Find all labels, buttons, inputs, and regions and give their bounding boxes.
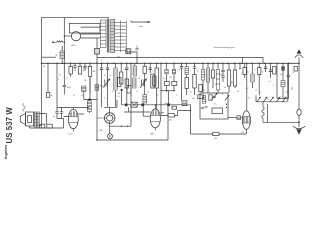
row resistor Rb3b <box>127 86 131 94</box>
svg-text:1: 1 <box>210 90 211 92</box>
svg-text:4: 4 <box>101 60 102 62</box>
svg-text:50: 50 <box>267 99 269 101</box>
svg-text:10: 10 <box>138 78 140 80</box>
svg-text:0,1: 0,1 <box>160 90 162 92</box>
column capacitor Ce2 <box>221 63 224 82</box>
wire coil leads <box>61 46 63 63</box>
svg-text:0,2: 0,2 <box>203 90 205 92</box>
wire earth stem <box>298 63 300 109</box>
wire power box top edge <box>42 16 110 18</box>
resistor Rd2 <box>164 82 169 86</box>
coil Ld <box>186 63 188 66</box>
svg-text:5000: 5000 <box>67 87 71 89</box>
capacitor Ce <box>180 63 183 78</box>
capacitor electrolytic + <box>95 49 100 55</box>
svg-text:6: 6 <box>247 92 248 94</box>
column coil Re2 <box>207 63 209 68</box>
svg-text:Netz: Netz <box>139 25 143 28</box>
wire speaker to chassis <box>39 114 46 126</box>
svg-text:50: 50 <box>110 75 112 77</box>
svg-text:1W: 1W <box>163 78 166 80</box>
svg-text:4: 4 <box>58 79 59 81</box>
junction dots on bus <box>41 63 300 141</box>
resistor on bottom line <box>39 124 45 128</box>
capacitor C1 <box>55 108 58 119</box>
fuse Si <box>52 41 63 43</box>
svg-text:5: 5 <box>241 73 242 75</box>
tube V3 UBF <box>150 109 160 135</box>
IF can L2 <box>87 101 91 112</box>
svg-text:90: 90 <box>43 66 45 68</box>
svg-text:UBF: UBF <box>150 133 154 135</box>
variable capacitor CV2 <box>140 79 147 88</box>
wire fuse to bus <box>63 42 65 63</box>
svg-text:2M: 2M <box>93 71 96 73</box>
resistor Rc1 <box>118 78 121 87</box>
jack X box <box>131 102 137 107</box>
resistor St <box>47 63 49 92</box>
svg-text:Betriebsspannungen gem.: Betriebsspannungen gem. <box>214 46 235 49</box>
wire rectifier to transformer <box>81 34 101 38</box>
resistor R1 <box>70 63 72 77</box>
tube V1 UCH <box>68 109 78 135</box>
value labels <box>59 60 288 106</box>
capacitor C2 <box>60 108 63 119</box>
antenna <box>295 55 303 64</box>
row capacitor Cb <box>106 63 109 73</box>
resistor Rg1 <box>282 63 284 66</box>
svg-text:10: 10 <box>256 90 258 92</box>
IF can L3 <box>144 73 146 95</box>
variable capacitor CV1 <box>103 79 110 88</box>
capacitor Cg2 <box>287 63 290 98</box>
resistor Rd7 <box>199 85 202 92</box>
rectifier tube AZ11 <box>71 32 80 41</box>
resistor in box <box>209 95 212 100</box>
speaker LS <box>20 114 25 125</box>
wire bottom left line <box>30 126 64 128</box>
resistor Rd1 <box>166 63 168 69</box>
svg-text:2: 2 <box>152 71 153 73</box>
wire tube V2 leads <box>104 100 117 134</box>
svg-text:50: 50 <box>112 91 114 93</box>
rectifier row <box>256 63 288 102</box>
earth arrow <box>293 126 305 129</box>
column resistor Re1 <box>202 63 204 69</box>
coil Lc1 <box>133 78 136 88</box>
voltage selector taps <box>115 21 127 53</box>
svg-text:0,1: 0,1 <box>53 116 56 118</box>
svg-text:8: 8 <box>137 91 138 93</box>
svg-text:0,1: 0,1 <box>269 81 271 83</box>
tube V4 UCL <box>241 111 250 134</box>
resistor Rg2 <box>281 81 285 87</box>
wire long vertical x97 <box>96 63 98 140</box>
svg-text:0,5: 0,5 <box>280 74 282 76</box>
wire x277 <box>276 63 278 98</box>
capacitor C2c <box>83 63 86 70</box>
svg-text:10: 10 <box>292 72 294 74</box>
svg-text:1M: 1M <box>84 80 87 82</box>
svg-text:0,2: 0,2 <box>66 78 68 80</box>
svg-text:6M7: 6M7 <box>100 130 104 132</box>
svg-text:CL4: CL4 <box>241 132 244 134</box>
node A <box>141 104 144 107</box>
svg-text:50: 50 <box>215 84 217 86</box>
svg-text:2: 2 <box>261 92 262 94</box>
svg-text:30: 30 <box>222 94 224 96</box>
resistor R2 <box>79 63 81 66</box>
svg-text:US 537 W: US 537 W <box>5 107 14 144</box>
trimmer arrow 2 <box>225 95 230 100</box>
diode D2 <box>263 97 267 102</box>
resistor 500b <box>213 132 219 135</box>
wire IF can leads <box>84 76 97 113</box>
coil in box <box>202 96 205 104</box>
resistor Rd5 <box>193 63 196 74</box>
capacitor Cg <box>269 63 272 78</box>
resistor Rc2 <box>125 79 128 88</box>
svg-text:300: 300 <box>292 87 294 90</box>
wire mains drop <box>63 17 65 42</box>
svg-text:400: 400 <box>169 120 172 122</box>
capacitor Cg0 <box>264 63 267 72</box>
row capacitor Cd <box>149 63 152 73</box>
wire y90 link <box>161 90 174 92</box>
wire tube V3 leads <box>143 105 164 131</box>
diode D4 <box>276 97 280 102</box>
resistor Rc3 <box>153 76 156 86</box>
svg-text:200: 200 <box>192 98 195 100</box>
wire tube V4 anode <box>246 63 248 111</box>
svg-text:25: 25 <box>73 95 75 97</box>
svg-text:4: 4 <box>205 75 206 77</box>
resistor R3 <box>89 63 91 93</box>
shield box rectifier <box>69 23 100 33</box>
output transformer Tr2 <box>34 112 39 127</box>
heater bracket <box>97 57 263 63</box>
svg-text:4: 4 <box>273 85 274 87</box>
wire grid top line tube1 <box>57 63 89 107</box>
speaker field coil mark <box>23 104 26 112</box>
svg-text:500: 500 <box>214 138 217 140</box>
svg-text:6: 6 <box>104 98 105 100</box>
row coil dark <box>115 63 117 68</box>
capacitor C3 <box>63 63 66 94</box>
svg-text:0,2: 0,2 <box>286 92 288 94</box>
resistor Rd6 <box>198 95 204 99</box>
resistor Rf1 <box>244 63 246 67</box>
lamp dial <box>108 134 113 139</box>
wire power box bottom hint <box>42 56 57 58</box>
svg-text:30: 30 <box>104 75 106 77</box>
svg-text:0,5: 0,5 <box>156 95 158 97</box>
row resistor Rb2 <box>120 63 122 72</box>
resistor in box 2 <box>212 108 223 114</box>
wire rectifier anode <box>64 35 71 37</box>
svg-text:+: + <box>101 51 102 53</box>
transformer core <box>107 19 108 53</box>
capacitor in box <box>205 96 217 108</box>
resistor Rh1 <box>172 106 177 109</box>
svg-text:50: 50 <box>59 75 61 77</box>
resistor Ld2 <box>185 78 188 89</box>
svg-text:6: 6 <box>255 70 256 72</box>
column resistor Re4 <box>217 63 219 69</box>
resistor Rd3 <box>173 63 175 69</box>
coil wavy <box>262 102 264 123</box>
svg-text:0,1: 0,1 <box>81 95 83 97</box>
capacitor in box 3 <box>201 107 204 108</box>
svg-text:0,1: 0,1 <box>224 87 226 89</box>
svg-text:2: 2 <box>132 95 133 97</box>
wire grid line y104.8 <box>122 63 191 105</box>
coil Sp <box>60 51 65 59</box>
row resistor Rb3 <box>134 63 136 66</box>
wire chassis left vertical <box>41 17 43 128</box>
svg-text:400: 400 <box>165 103 168 105</box>
transformer secondary <box>110 20 115 53</box>
wire bottom line right <box>191 129 247 134</box>
resistor Rf2 <box>258 63 260 67</box>
fuse oval <box>297 109 301 115</box>
svg-text:1: 1 <box>148 75 149 77</box>
grid stopper tube V4 <box>241 117 243 119</box>
coil dark Lh <box>182 101 187 106</box>
svg-text:50: 50 <box>148 92 150 94</box>
svg-text:0,1: 0,1 <box>124 69 126 71</box>
svg-text:0,1: 0,1 <box>118 96 120 98</box>
svg-text:0,1: 0,1 <box>220 74 223 76</box>
svg-text:Sp: Sp <box>55 55 57 57</box>
svg-text:0,1: 0,1 <box>248 98 250 100</box>
wire main bus <box>42 62 300 64</box>
diode D3 <box>270 97 274 102</box>
capacitor on mains <box>135 46 138 50</box>
svg-text:8: 8 <box>248 72 249 74</box>
column resistor x234 <box>234 63 236 70</box>
wire tube V1 leads <box>64 108 85 132</box>
svg-text:500: 500 <box>118 93 121 95</box>
wire bottom tie <box>277 98 289 100</box>
diode D1 <box>257 97 261 102</box>
svg-text:40: 40 <box>170 77 172 79</box>
wire y116 line <box>161 63 168 115</box>
resistor Cg1b <box>273 67 276 75</box>
svg-text:1: 1 <box>229 90 230 92</box>
svg-text:0,3: 0,3 <box>178 70 180 72</box>
wire electrolytic leads <box>96 38 98 63</box>
wire caps to bottom <box>57 119 64 129</box>
svg-text:Ingelen: Ingelen <box>3 144 8 159</box>
wire heater tap <box>81 26 101 28</box>
resistor on bottom line 2 <box>47 124 52 128</box>
svg-text:50: 50 <box>197 71 199 73</box>
svg-text:AZ11: AZ11 <box>72 44 76 47</box>
trimmer arrow in box <box>212 93 218 100</box>
wire long drops <box>102 73 182 109</box>
svg-text:UCH: UCH <box>69 133 74 135</box>
capacitor C2b <box>73 63 76 69</box>
svg-text:8: 8 <box>262 72 263 74</box>
wire x267 <box>267 104 269 122</box>
column resistor x229 <box>228 63 230 70</box>
svg-text:0,1: 0,1 <box>190 92 192 94</box>
resistor Rg3 <box>294 67 297 72</box>
row resistor Rb6 <box>151 74 154 88</box>
column wire x240 <box>239 63 241 68</box>
wire y122 <box>263 121 299 123</box>
transformer Tr1 primary <box>100 20 106 48</box>
svg-text:0,3: 0,3 <box>246 88 248 90</box>
svg-text:30: 30 <box>237 91 239 93</box>
IF box U2 <box>200 93 228 119</box>
resistor Rd4 <box>172 82 177 86</box>
svg-text:50: 50 <box>205 102 207 104</box>
node B <box>167 103 170 106</box>
column resistor Re3 <box>212 63 214 70</box>
svg-text:4: 4 <box>131 74 132 76</box>
wire x121 drop <box>121 90 123 105</box>
wire mains arrow <box>131 21 150 23</box>
capacitor mains 220 <box>126 49 131 54</box>
row capacitor Cc <box>125 63 128 73</box>
IF can L1 <box>82 86 87 92</box>
diode D5 <box>282 97 286 102</box>
svg-text:0,5: 0,5 <box>214 104 216 106</box>
wire taps to bus <box>126 52 137 63</box>
tube V2 round <box>97 113 115 132</box>
row resistor Rb5 <box>156 63 158 68</box>
svg-text:St: St <box>51 94 53 97</box>
wire y112 <box>124 107 150 112</box>
resistor R4 <box>95 85 99 91</box>
resistor 500 <box>168 114 174 117</box>
row capacitor Ca <box>100 63 103 73</box>
wire y126 <box>110 107 131 126</box>
coil Lf <box>251 63 253 74</box>
row resistor Rb4 <box>144 63 146 66</box>
wire to x190 <box>174 105 190 134</box>
wire bottom bus <box>97 105 168 140</box>
svg-text:0,1: 0,1 <box>73 70 76 72</box>
svg-text:5: 5 <box>176 95 177 97</box>
node A1 <box>125 104 128 107</box>
